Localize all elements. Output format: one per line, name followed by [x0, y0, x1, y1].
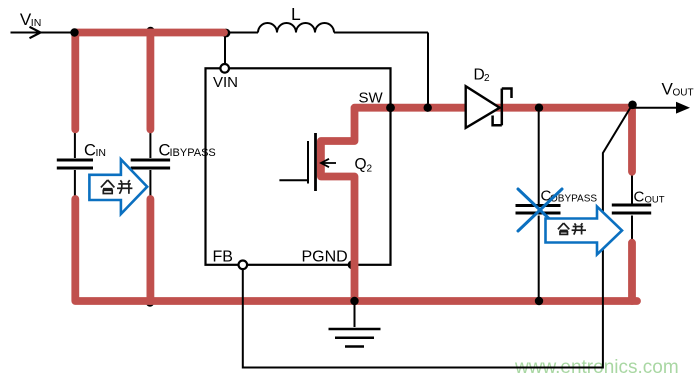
svg-text:FB: FB: [213, 249, 233, 266]
svg-text:SW: SW: [359, 90, 384, 107]
svg-text:C: C: [84, 142, 96, 160]
svg-text:IN: IN: [31, 17, 42, 29]
svg-text:IBYPASS: IBYPASS: [170, 147, 216, 159]
svg-text:C: C: [634, 189, 645, 206]
svg-text:PGND: PGND: [302, 249, 348, 266]
svg-text:VIN: VIN: [213, 74, 238, 91]
svg-text:L: L: [291, 4, 301, 24]
svg-text:2: 2: [484, 73, 490, 84]
svg-text:OUT: OUT: [673, 88, 694, 99]
svg-text:IN: IN: [96, 147, 107, 159]
svg-text:2: 2: [367, 164, 373, 175]
svg-text:OUT: OUT: [645, 195, 665, 206]
svg-text:Q: Q: [355, 156, 367, 173]
